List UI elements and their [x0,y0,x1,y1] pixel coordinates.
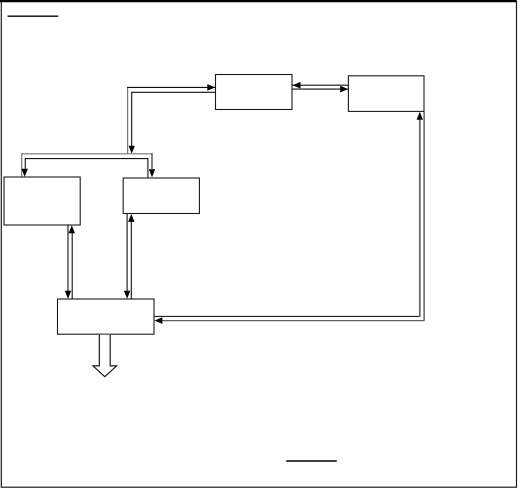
wire distribution upper bracket [21,153,152,176]
arrowhead down into B5 top [65,291,71,299]
wire B1-B2 lower [293,88,349,90]
wire B4-B5 up line [130,222,132,300]
arrowhead down into B5 top [124,291,130,299]
arrowhead left into B1 [293,82,301,89]
arrowhead down into B4 top [149,169,155,177]
wire B1-B2 upper [293,84,349,86]
box B1 top-middle [216,75,293,110]
wire junction-to-B1 (up path) [127,87,215,154]
wire B4-B5 down line [126,214,128,291]
box B2 top-right [348,76,424,112]
wire B2-to-B5 (down path) [162,112,424,322]
box B3 left [4,177,80,225]
arrowhead down at junction [129,146,135,154]
box B5 bottom [58,299,155,334]
hollow down arrow [93,335,117,377]
arrowhead up into B2 bottom [417,112,423,120]
wire distribution lower bracket [25,159,148,178]
arrowhead up into B4 bottom [128,214,134,222]
arrowhead right into B1 left edge [207,84,215,91]
header rule [8,15,59,17]
wire B1-to-junction (down path) [132,92,216,146]
arrowhead down into B3 top [22,169,28,177]
arrowhead right into B2 [340,86,348,93]
wire B3-B5 down line [67,225,69,291]
wire B3-B5 up line [71,233,73,299]
box B4 middle [123,178,199,214]
arrowhead up into B3 bottom [69,225,75,233]
arrowhead left into B5 right edge [154,317,162,324]
footer rule [286,460,337,462]
wire B5-to-B2 (up path) [154,120,420,317]
